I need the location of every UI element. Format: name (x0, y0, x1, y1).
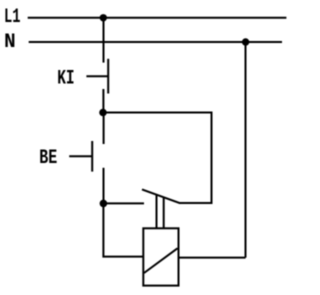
svg-text:KI: KI (57, 68, 74, 91)
relay actuator linkage double line right (163, 198, 165, 228)
wire from button BE to node B (103, 168, 105, 204)
wire from coil right terminal to N drop (179, 257, 246, 259)
button BE actuator line (69, 155, 92, 157)
net N bus wire (29, 41, 282, 43)
wire from N junction down (245, 42, 247, 258)
wire from L1 down to contact KI (103, 18, 105, 63)
svg-text:L1: L1 (4, 6, 21, 29)
relay actuator linkage double line left (156, 195, 158, 227)
junction dot node B (100, 200, 108, 208)
junction dot node A (99, 109, 107, 117)
relay coil diagonal mark (144, 248, 178, 273)
wire from contact KI to node A (102, 89, 104, 113)
wire branch from node A to relay contact (103, 113, 212, 204)
button BE movable blade (91, 141, 93, 172)
contact KI movable blade (107, 59, 109, 94)
relay coil K1 body (143, 228, 178, 285)
junction dot on L1 (100, 14, 107, 21)
svg-text:BE: BE (39, 147, 57, 170)
wire from node B to relay contact fixed terminal (103, 202, 144, 204)
relay contact movable blade (diagonal) (142, 189, 180, 203)
svg-text:N: N (4, 31, 16, 54)
wire from node A down to button BE (103, 113, 105, 145)
relay contact blade to right terminal (180, 202, 213, 204)
junction dot on N (242, 38, 249, 45)
wire from node B down to coil left terminal (103, 203, 143, 256)
contact KI actuator line (86, 75, 108, 77)
net L1 bus wire (28, 17, 287, 19)
